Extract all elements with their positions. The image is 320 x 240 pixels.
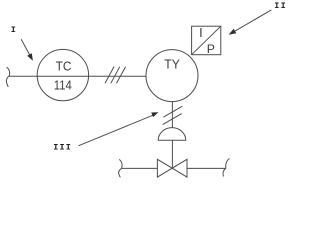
arrowhead of callout I (27, 53, 33, 61)
wire: stem from TY bubble down to actuator (171, 101, 173, 127)
callout arrow line for label III (78, 115, 153, 146)
pipe break squiggle at left end of pipe (119, 159, 123, 177)
callout arrow line for label II (235, 10, 272, 31)
svg-text:114: 114 (54, 78, 72, 93)
pipe segment right of valve (187, 167, 226, 169)
control valve body (bowtie) (157, 159, 187, 177)
svg-text:I: I (199, 25, 203, 40)
svg-text:I: I (11, 25, 17, 35)
wire: signal line from left break through TC to TY (9, 75, 146, 77)
arrowhead of callout II (229, 29, 237, 35)
callout arrow line for label I (21, 39, 30, 55)
signal hash marks /// on line between TC and TY (105, 67, 114, 84)
svg-text:P: P (207, 42, 215, 56)
instrument bubble TC (37, 49, 88, 100)
pipe segment left of valve (122, 167, 158, 169)
svg-text:III: III (53, 143, 72, 153)
I/P converter box (192, 26, 221, 55)
instrument bubble TY (146, 50, 198, 102)
signal hash marks // on stem (163, 106, 182, 117)
pipe break squiggle at left end of signal line (6, 67, 9, 87)
svg-text:TY: TY (164, 57, 180, 72)
diagonal divider of I/P box (192, 26, 221, 55)
svg-text:II: II (274, 1, 287, 11)
svg-text:TC: TC (56, 58, 72, 73)
wire: stem from actuator dome to valve (171, 140, 173, 168)
valve actuator diaphragm dome (158, 128, 186, 141)
wire: signal line chord inside TC bubble (37, 75, 88, 77)
pipe break squiggle at right end of pipe (223, 159, 229, 177)
arrowhead of callout III (151, 112, 158, 117)
